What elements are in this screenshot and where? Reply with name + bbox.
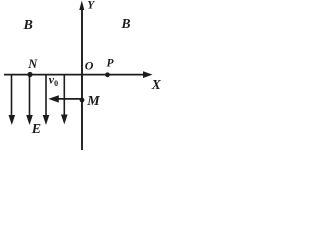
- X axis: [4, 74, 144, 76]
- E field arrow 3: [43, 75, 50, 125]
- svg-text:O: O: [85, 59, 94, 73]
- svg-text:M: M: [86, 94, 100, 109]
- node M dot: [80, 98, 85, 103]
- svg-text:B: B: [23, 18, 33, 33]
- Y axis: [81, 6, 83, 150]
- svg-text:X: X: [151, 77, 162, 92]
- svg-text:E: E: [31, 122, 41, 137]
- Y axis arrowhead: [79, 1, 84, 11]
- svg-text:B: B: [121, 16, 131, 31]
- E field arrow 2: [26, 75, 33, 125]
- node N dot: [27, 72, 32, 77]
- svg-text:Y: Y: [87, 0, 95, 12]
- E field arrow 1: [9, 75, 16, 125]
- node P dot: [105, 72, 110, 77]
- E field arrow 4: [61, 75, 68, 124]
- X axis arrowhead: [143, 71, 153, 78]
- svg-text:P: P: [107, 58, 115, 70]
- velocity v0 arrow (leftward from M): [58, 98, 83, 100]
- svg-text:N: N: [27, 57, 38, 71]
